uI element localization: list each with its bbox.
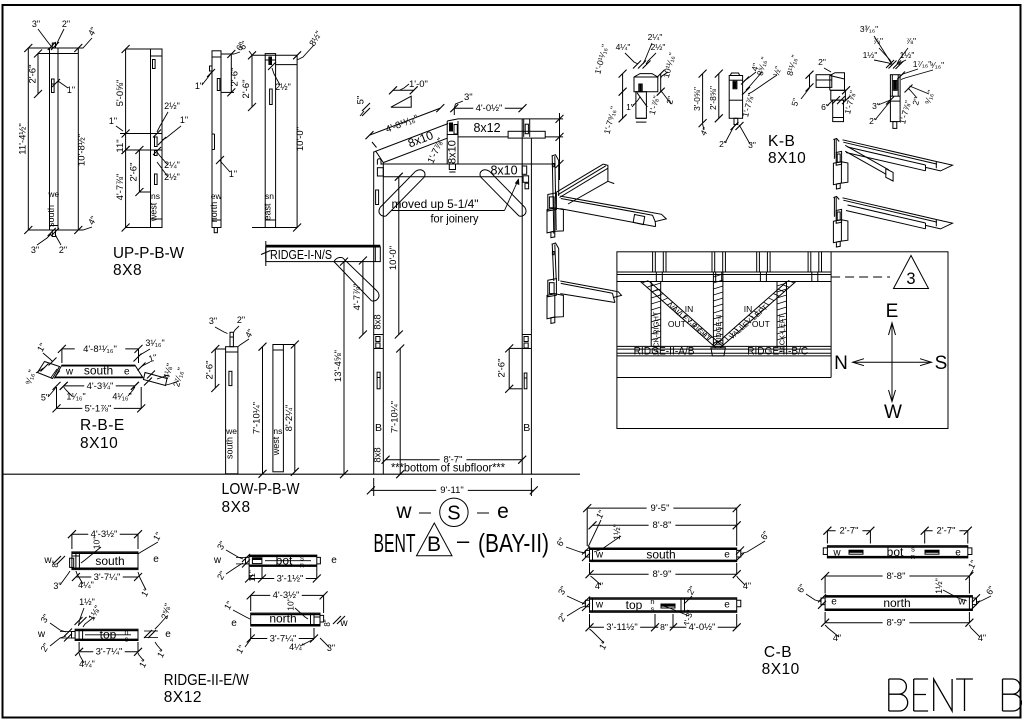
svg-text:1½": 1½": [934, 578, 944, 594]
beam RIDGE-II south: [72, 552, 138, 570]
svg-text:IN: IN: [744, 304, 753, 314]
ground line (bottom of subfloor datum): [4, 473, 581, 475]
svg-text:south: south: [225, 437, 235, 459]
svg-text:RIDGE-I-N/S: RIDGE-I-N/S: [270, 248, 332, 262]
plate beam 8x12: [458, 118, 563, 120]
iso right-top: main beam: [843, 140, 937, 162]
svg-text:½": ½": [771, 65, 783, 77]
svg-text:8X12: 8X12: [164, 689, 202, 706]
RIDGE-II north dims: [251, 594, 324, 596]
svg-text:south: south: [46, 205, 56, 227]
post LOW-P-B-W south face: [226, 347, 238, 474]
LOW P1 dims: [214, 349, 216, 388]
post LOW-P-B-W west face: [273, 345, 284, 472]
post P3 scarf jog: [212, 133, 215, 135]
svg-text:1": 1": [626, 102, 634, 112]
dim 11'-4 1/2: [27, 48, 29, 230]
svg-text:6": 6": [795, 582, 808, 594]
svg-text:RIDGE-II-B/C: RIDGE-II-B/C: [747, 346, 808, 358]
dim 9ft-11 overall: [373, 478, 375, 496]
svg-text:4'-0½": 4'-0½": [689, 622, 716, 633]
C-B south dims: [587, 507, 737, 509]
dim line top P1: [28, 47, 78, 49]
svg-text:n: n: [911, 552, 915, 561]
svg-text:4": 4": [743, 581, 751, 591]
svg-text:1'-7⅞": 1'-7⅞": [897, 99, 913, 125]
svg-text:4¹⁄₁₆": 4¹⁄₁₆": [112, 392, 131, 402]
svg-text:RIDGE-II-A/B: RIDGE-II-A/B: [634, 346, 695, 358]
svg-text:8": 8": [323, 619, 332, 626]
svg-text:8X10: 8X10: [768, 150, 806, 167]
svg-text:8x10: 8x10: [490, 164, 517, 178]
cross beam section at right post top: [508, 131, 545, 138]
svg-text:E: E: [886, 301, 899, 322]
plan posts at top: [652, 252, 654, 272]
svg-text:10": 10": [286, 598, 296, 610]
svg-text:1'-7⁹⁄₁₆": 1'-7⁹⁄₁₆": [602, 105, 619, 135]
beam RIDGE-I-N/S: [266, 247, 381, 262]
svg-text:7'-10¼": 7'-10¼": [252, 402, 263, 434]
svg-text:w: w: [595, 600, 604, 611]
svg-text:2¼": 2¼": [164, 160, 180, 170]
svg-text:west: west: [271, 436, 281, 456]
svg-text:2'-6": 2'-6": [205, 361, 216, 380]
svg-text:LOW-P-B-W: LOW-P-B-W: [222, 481, 300, 498]
dim lines P2 horizontals: [126, 48, 162, 50]
right post pegs below beam: [523, 176, 529, 183]
rafter dim 4ft-8 11/16: [370, 108, 441, 135]
iso center-bottom: vertical plank: [552, 244, 554, 282]
iso right-top: diagonal brace: [845, 145, 889, 170]
svg-text:8X10: 8X10: [762, 661, 800, 678]
dim 2'-6 P4: [251, 55, 253, 107]
svg-text:9'-11": 9'-11": [440, 485, 464, 496]
svg-text:2'-6": 2'-6": [27, 65, 38, 84]
compass vertical line: [891, 323, 893, 402]
svg-text:3'-11½": 3'-11½": [606, 622, 637, 633]
svg-text:8½": 8½": [307, 29, 324, 48]
plan bottom boundary: [617, 377, 831, 379]
svg-text:6": 6": [555, 536, 568, 548]
svg-text:B: B: [375, 422, 382, 434]
bent left post: [373, 152, 375, 475]
left post mortise mid: [376, 190, 379, 205]
svg-text:e: e: [165, 629, 171, 640]
dim 10'-8 1/2: [77, 48, 79, 230]
svg-text:6": 6": [984, 584, 997, 596]
iso center-bottom: post block: [548, 279, 557, 297]
iso center-top: diagonal rafter beam: [556, 164, 603, 192]
svg-text:2'-7": 2'-7": [840, 526, 859, 537]
post UP-P-B-W west face: [151, 49, 163, 228]
svg-text:e: e: [331, 555, 337, 566]
svg-text:north: north: [269, 612, 296, 626]
dim 2'-6 P3: [230, 54, 232, 92]
svg-text:we: we: [225, 426, 237, 436]
svg-text:w: w: [37, 629, 46, 640]
svg-text:ew: ew: [211, 191, 223, 201]
svg-text:3'-1½": 3'-1½": [277, 573, 304, 584]
pitch triangle: [391, 96, 411, 107]
svg-text:8x8: 8x8: [373, 314, 384, 329]
plan valley-left diagonal: [720, 282, 796, 348]
svg-text:3": 3": [748, 140, 756, 150]
svg-text:8": 8": [660, 622, 668, 632]
plan ridge-II center member: [713, 272, 723, 346]
svg-text:S: S: [447, 503, 460, 525]
post P4 mortises: [269, 57, 272, 65]
svg-text:6": 6": [759, 529, 772, 541]
post P2 mortises: [153, 60, 156, 69]
svg-text:BENT: BENT: [374, 528, 416, 558]
beam C-B south: [590, 548, 737, 562]
R-B-E dim 4ft-3 3/4: [64, 385, 135, 387]
iso right-bottom: main beam: [843, 198, 937, 220]
svg-text:3": 3": [53, 581, 61, 591]
svg-text:2": 2": [719, 139, 727, 149]
svg-text:2": 2": [237, 315, 245, 325]
svg-text:9'-5": 9'-5": [651, 503, 670, 514]
svg-text:w: w: [395, 500, 412, 523]
dim 10ft-0 left post: [398, 177, 400, 335]
svg-text:10'-8½": 10'-8½": [76, 134, 87, 166]
compass horizontal line: [853, 361, 932, 363]
K-B 1 dims: [622, 74, 624, 119]
svg-text:4'-8¹¹⁄₁₆": 4'-8¹¹⁄₁₆": [384, 113, 420, 135]
svg-text:4": 4": [243, 327, 256, 339]
svg-text:IN: IN: [685, 304, 694, 314]
svg-text:5": 5": [789, 97, 801, 107]
svg-text:11'-4½": 11'-4½": [18, 123, 29, 154]
svg-text:2½": 2½": [164, 101, 180, 111]
svg-text:8x10: 8x10: [446, 140, 458, 164]
svg-text:west: west: [149, 202, 159, 222]
post UP-P-B-W north face: [212, 51, 221, 228]
svg-text:e: e: [724, 600, 730, 611]
svg-text:2": 2": [818, 57, 826, 67]
svg-text:e: e: [955, 548, 961, 559]
svg-text:1": 1": [180, 115, 188, 125]
svg-text:4'-0½": 4'-0½": [476, 103, 503, 114]
svg-text:3³⁄₁₆": 3³⁄₁₆": [860, 24, 878, 34]
svg-text:R-B-E: R-B-E: [80, 417, 125, 434]
svg-text:⁹⁄₁₆": ⁹⁄₁₆": [930, 60, 944, 70]
RIDGE-I extension + arrow: [265, 241, 267, 266]
svg-text:1": 1": [597, 639, 610, 651]
C-B bot mortise marks: [849, 550, 863, 553]
K-B brace view 4: [890, 75, 900, 122]
svg-text:3": 3": [31, 245, 39, 255]
svg-text:2": 2": [685, 584, 698, 596]
post UP-P-B-W east face: [265, 54, 275, 228]
knee brace below RIDGE-I: [343, 258, 378, 292]
beam C-B north: [825, 596, 972, 611]
svg-text:10'-0": 10'-0": [388, 246, 399, 270]
beam C-B bot: [827, 546, 967, 558]
svg-text:3": 3": [327, 643, 335, 653]
svg-text:1½": 1½": [863, 50, 878, 60]
tie beam 8x10: [381, 163, 555, 165]
title BENT B sheet name: [889, 679, 1022, 711]
svg-text:2": 2": [556, 611, 569, 623]
rafter top edge: [376, 124, 448, 152]
K-B 2 dims: [702, 74, 704, 124]
dim 2'-6 P1: [37, 54, 39, 95]
dim 5'-0 5/8: [125, 49, 127, 134]
svg-text:3'-7¼": 3'-7¼": [96, 647, 123, 658]
svg-text:1": 1": [229, 169, 237, 179]
svg-text:***bottom of subfloor***: ***bottom of subfloor***: [391, 461, 505, 475]
C-B top mortise marks: [661, 604, 675, 607]
svg-text:8⁵⁄₁₆": 8⁵⁄₁₆": [755, 56, 770, 77]
svg-text:4": 4": [698, 126, 711, 138]
R-B-E left waste piece: [38, 362, 60, 379]
svg-text:⁹⁄₁₆": ⁹⁄₁₆": [23, 369, 37, 386]
svg-text:8'-9": 8'-9": [653, 569, 672, 580]
K-B brace view 3: [816, 75, 832, 88]
dim 13ft-4 5/8 extension tick top: [343, 262, 345, 475]
svg-text:moved up 5-1/4": moved up 5-1/4": [392, 197, 479, 211]
svg-text:south: south: [84, 364, 113, 378]
K-B brace view 1: [634, 74, 658, 92]
dim 4'-7 7/8 P2: [125, 150, 127, 228]
plan valley-right diagonal: [640, 282, 715, 348]
svg-text:3": 3": [39, 612, 52, 624]
svg-text:2": 2": [869, 116, 877, 126]
svg-text:6": 6": [821, 102, 829, 112]
svg-text:4¼": 4¼": [79, 659, 95, 669]
left post scarf joint: [374, 334, 384, 336]
svg-text:2'-6": 2'-6": [229, 68, 240, 87]
K-B 3 dims: [809, 75, 811, 88]
svg-text:1": 1": [35, 341, 48, 353]
svg-text:4": 4": [86, 214, 99, 226]
left post top rafter seat: [374, 151, 384, 162]
svg-text:n: n: [300, 561, 304, 570]
right post: [521, 119, 523, 474]
svg-text:2'-7": 2'-7": [937, 526, 956, 537]
R-B-E dim 5ft-1 7/8: [57, 407, 142, 409]
svg-text:2½": 2½": [164, 172, 180, 182]
RIDGE-II south dims: [72, 533, 138, 535]
svg-text:1'-0": 1'-0": [409, 79, 428, 90]
svg-text:1'-⅞": 1'-⅞": [647, 95, 662, 116]
svg-text:2": 2": [215, 569, 228, 581]
R-B-E right waste piece: [144, 373, 168, 386]
svg-text:3": 3": [209, 316, 217, 326]
svg-text:e: e: [497, 500, 509, 523]
svg-text:N: N: [834, 353, 848, 374]
svg-text:8x12: 8x12: [473, 121, 500, 135]
svg-text:5": 5": [41, 393, 49, 403]
svg-text:4": 4": [595, 581, 603, 591]
plate end extension line: [559, 113, 561, 180]
plan right boundary: [830, 252, 832, 378]
svg-text:2": 2": [59, 245, 67, 255]
plan junction block: [711, 348, 726, 356]
svg-text:1": 1": [109, 116, 117, 126]
iso center-top: horizontal beam: [560, 196, 651, 212]
detail box frame: [617, 252, 948, 429]
svg-text:ns: ns: [273, 426, 282, 436]
svg-text:5'-1⅞": 5'-1⅞": [85, 403, 112, 414]
iso right-bottom: post: [833, 197, 835, 217]
iso right-top: post: [833, 139, 835, 159]
beam RIDGE-II top: [75, 629, 138, 640]
svg-text:we: we: [47, 189, 59, 199]
svg-text:8X10: 8X10: [80, 435, 118, 452]
svg-text:1": 1": [195, 81, 203, 91]
dim 4ft-0 1/2 top: [454, 107, 522, 109]
svg-text:OUT: OUT: [752, 319, 770, 329]
svg-text:2¼": 2¼": [648, 32, 663, 42]
svg-text:1": 1": [151, 530, 164, 542]
svg-text:RIDGE-II-E/W: RIDGE-II-E/W: [164, 672, 249, 689]
post P3 mortise: [217, 79, 220, 91]
C-B bot dims: [827, 530, 870, 532]
svg-text:e: e: [153, 554, 159, 565]
svg-text:B: B: [523, 422, 530, 434]
left post lower mortise: [377, 372, 380, 389]
svg-text:8'-8": 8'-8": [887, 571, 906, 582]
dim lines P4: [252, 54, 297, 56]
svg-text:e: e: [124, 367, 130, 378]
svg-text:south: south: [95, 554, 124, 568]
svg-text:8¹¹⁄₁₆": 8¹¹⁄₁₆": [785, 54, 800, 77]
svg-text:top: top: [100, 628, 117, 642]
svg-text:2'-6": 2'-6": [497, 359, 508, 378]
svg-text:e: e: [724, 550, 730, 561]
svg-text:3'-0⅝": 3'-0⅝": [692, 87, 702, 111]
svg-text:⁹⁄₁₆": ⁹⁄₁₆": [922, 89, 935, 105]
svg-text:1⁷⁄₁₆": 1⁷⁄₁₆": [913, 59, 932, 69]
svg-text:2'-6": 2'-6": [241, 80, 252, 99]
svg-text:4'-7⅞": 4'-7⅞": [115, 174, 126, 201]
svg-text:ns: ns: [151, 191, 160, 201]
svg-text:2'-8⅝": 2'-8⅝": [708, 86, 718, 110]
svg-text:S: S: [935, 353, 948, 374]
post UP-P-B-W south face: [50, 48, 59, 230]
svg-text:2½": 2½": [275, 82, 291, 92]
svg-text:4'-7⅞": 4'-7⅞": [352, 284, 363, 311]
svg-text:e: e: [831, 597, 837, 608]
svg-text:–: –: [457, 528, 470, 553]
right post mortise: [524, 373, 527, 389]
K-B brace view 2: [729, 76, 742, 119]
pitch dim 1ft-0: [393, 89, 414, 91]
svg-text:w: w: [213, 555, 222, 566]
svg-text:sn: sn: [265, 191, 274, 201]
dim 2'-6 P2: [138, 150, 140, 192]
svg-text:1": 1": [137, 657, 150, 669]
svg-text:W: W: [884, 402, 902, 423]
tie beam right housing: [522, 166, 527, 174]
note leader arrow: [392, 210, 505, 212]
svg-text:bot: bot: [887, 545, 904, 559]
svg-text:4'-8¹¹⁄₁₆": 4'-8¹¹⁄₁₆": [83, 344, 117, 355]
plan jack-left member: [777, 282, 787, 347]
dim 8ft-2 1/4 LOW: [294, 345, 296, 472]
dim 8ft-7 subfloor: [386, 459, 523, 461]
svg-text:bot: bot: [276, 554, 293, 568]
iso center-top: post block: [548, 193, 557, 211]
svg-text:8X8: 8X8: [113, 262, 142, 279]
dim 10'-0 P4: [296, 55, 298, 227]
svg-text:1'-0¹¹⁄₁₆": 1'-0¹¹⁄₁₆": [592, 43, 610, 75]
left post beam housing: [377, 168, 383, 176]
left knee brace: [380, 171, 416, 207]
dim 11": [122, 146, 130, 154]
svg-text:8'-2¼": 8'-2¼": [284, 405, 295, 432]
svg-text:⅞": ⅞": [906, 36, 916, 46]
plan top plate band: [617, 271, 831, 273]
ridge strut tenon into tie beam: [449, 164, 455, 170]
svg-text:w: w: [832, 548, 841, 559]
svg-text:w: w: [65, 367, 74, 378]
svg-text:e: e: [231, 618, 237, 629]
detail callout triangle 3: [894, 256, 929, 289]
svg-text:7'-10¼": 7'-10¼": [389, 401, 400, 433]
svg-text:2½": 2½": [651, 42, 666, 52]
svg-text:(BAY-II): (BAY-II): [478, 528, 549, 558]
right post top tenon through plate: [523, 119, 525, 137]
C-B north dims: [825, 575, 969, 577]
svg-text:north: north: [209, 202, 219, 223]
dim 7ft-10 1/4 left post lower: [399, 349, 401, 475]
beam RIDGE-II north: [251, 613, 320, 626]
svg-text:north: north: [883, 596, 910, 610]
svg-text:1": 1": [234, 643, 247, 655]
svg-text:top: top: [626, 598, 643, 612]
svg-text:4'-3¾": 4'-3¾": [87, 381, 114, 392]
svg-text:C-B: C-B: [764, 644, 792, 661]
iso center-top: vertical plank: [552, 155, 554, 233]
beam C-B top: [590, 598, 737, 613]
svg-text:5": 5": [356, 96, 367, 105]
svg-text:8'-8": 8'-8": [653, 520, 672, 531]
svg-text:4": 4": [833, 633, 841, 643]
svg-text:5'-0⅝": 5'-0⅝": [115, 80, 126, 107]
svg-text:3": 3": [556, 584, 569, 596]
svg-text:4¼": 4¼": [289, 642, 305, 652]
svg-text:UP-P-B-W: UP-P-B-W: [113, 245, 184, 262]
svg-text:east: east: [263, 203, 273, 221]
svg-text:south: south: [646, 548, 675, 562]
svg-text:RIDGE-II: RIDGE-II: [714, 315, 723, 345]
svg-text:2'-6": 2'-6": [129, 163, 140, 182]
svg-text:4¼": 4¼": [616, 42, 631, 52]
dim 7ft-10 1/4 LOW: [262, 347, 264, 474]
svg-text:8X8: 8X8: [222, 499, 251, 516]
svg-text:4¼": 4¼": [78, 580, 94, 590]
beam R-B-E body: [55, 365, 143, 378]
rafter bottom edge: [383, 138, 447, 162]
svg-text:1": 1": [155, 647, 168, 659]
svg-text:1½": 1½": [612, 524, 622, 540]
svg-text:2": 2": [39, 641, 52, 653]
svg-text:3": 3": [32, 19, 40, 29]
svg-text:2": 2": [62, 19, 70, 29]
svg-text:8x8: 8x8: [373, 447, 384, 462]
svg-text:1": 1": [966, 558, 979, 570]
right post dim 2ft-6: [508, 348, 510, 388]
left post peg detail: [377, 159, 381, 165]
svg-text:3": 3": [215, 539, 228, 551]
svg-text:11": 11": [115, 139, 126, 152]
svg-text:1": 1": [594, 508, 607, 520]
svg-text:K-B: K-B: [768, 133, 795, 150]
svg-text:s: s: [651, 605, 655, 614]
